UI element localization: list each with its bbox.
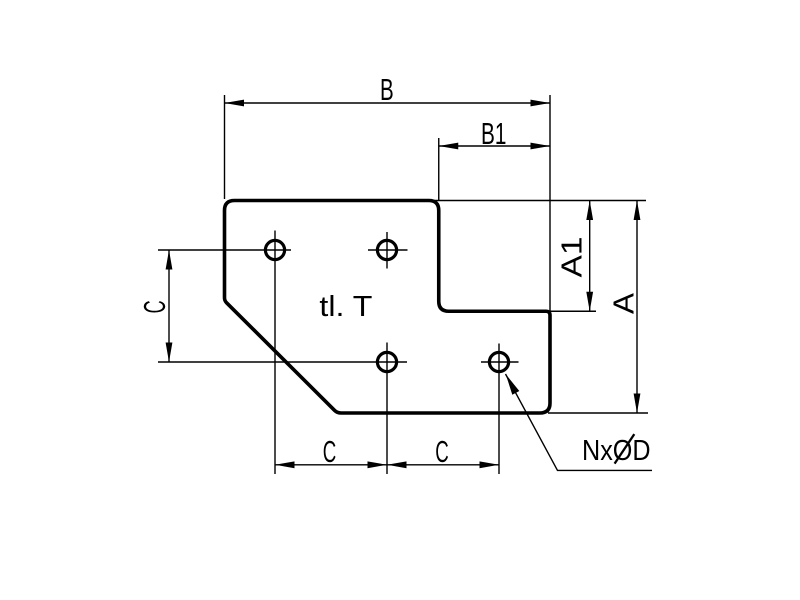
centerline hole H4 vertical bbox=[498, 344, 500, 475]
extension line B left bbox=[224, 95, 226, 199]
leader line NxOD bbox=[506, 374, 653, 470]
centerline hole H3 vertical bbox=[386, 343, 388, 475]
arrowhead A1 bottom bbox=[586, 292, 593, 312]
svg-text:C: C bbox=[323, 434, 337, 469]
arrowhead C1 left bbox=[275, 461, 295, 468]
centerline hole H2 horizontal bbox=[368, 249, 408, 251]
arrowhead C-left bottom bbox=[166, 343, 173, 363]
svg-text:A1: A1 bbox=[557, 237, 589, 278]
dimension line A bbox=[636, 201, 638, 414]
arrowhead C-left top bbox=[166, 250, 173, 270]
extension line B/B1 right bbox=[549, 95, 551, 311]
arrowhead A1 top bbox=[586, 201, 593, 221]
extension line A bottom bbox=[548, 412, 648, 414]
extension line B1 left bbox=[438, 138, 440, 200]
hole H2 bbox=[377, 240, 396, 259]
dimension line C bottom bbox=[275, 464, 499, 466]
dimension line B bbox=[225, 102, 551, 104]
arrowhead B1 right bbox=[531, 143, 551, 150]
arrowhead B1 left bbox=[439, 143, 459, 150]
centerline hole H4 horizontal bbox=[481, 361, 519, 363]
arrowhead A bottom bbox=[634, 394, 641, 414]
svg-text:A: A bbox=[609, 292, 641, 314]
arrowhead B right bbox=[531, 100, 551, 107]
dimension line B1 bbox=[439, 145, 550, 147]
svg-text:B: B bbox=[380, 72, 394, 107]
hole H1 bbox=[265, 240, 284, 259]
arrowhead B left bbox=[225, 100, 245, 107]
arrowhead leader bbox=[506, 374, 520, 395]
centerline hole H1 horizontal / C top extension line bbox=[158, 249, 291, 251]
diameter slash bbox=[615, 434, 635, 464]
arrowhead C2 right bbox=[480, 461, 500, 468]
svg-text:C: C bbox=[137, 300, 172, 313]
svg-text:B1: B1 bbox=[481, 116, 506, 151]
plate outline bbox=[225, 201, 551, 414]
dimension line A1 bbox=[589, 201, 591, 312]
arrowhead A top bbox=[634, 201, 641, 221]
centerline hole H1 vertical bbox=[274, 231, 276, 475]
arrowhead C1 right bbox=[368, 461, 388, 468]
hole H4 bbox=[489, 352, 508, 371]
centerline hole H2 vertical bbox=[386, 232, 388, 269]
hole H3 bbox=[377, 352, 396, 371]
dimension line C left bbox=[168, 250, 170, 362]
extension line A/A1 top bbox=[430, 200, 646, 202]
extension line A1 bottom (step) bbox=[550, 310, 596, 312]
svg-text:tl. T: tl. T bbox=[319, 291, 372, 323]
centerline hole H3 horizontal / C bottom extension line bbox=[158, 361, 407, 363]
arrowhead C2 left bbox=[387, 461, 407, 468]
svg-text:C: C bbox=[435, 434, 449, 469]
